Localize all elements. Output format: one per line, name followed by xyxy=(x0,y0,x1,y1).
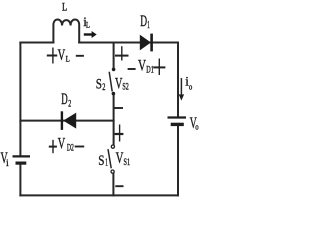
svg-text:S: S xyxy=(98,153,104,169)
svg-text:S2: S2 xyxy=(122,82,128,92)
svg-text:D: D xyxy=(140,13,147,30)
label + above S2 xyxy=(115,46,129,60)
svg-text:L: L xyxy=(86,20,90,30)
wire left side upper xyxy=(19,43,21,157)
svg-text:S1: S1 xyxy=(124,157,131,167)
diode D2 xyxy=(62,111,76,130)
svg-text:S: S xyxy=(96,77,102,93)
label Vi xyxy=(1,150,10,168)
wire top-left segment xyxy=(20,42,53,44)
wire bottom xyxy=(20,194,178,196)
svg-text:V: V xyxy=(58,136,66,153)
label -VD1+ xyxy=(128,58,166,76)
svg-text:V: V xyxy=(138,58,146,75)
svg-text:L: L xyxy=(66,54,70,64)
wire right side lower xyxy=(177,124,179,195)
label VS2 xyxy=(115,76,129,93)
wire top-right segment xyxy=(79,42,178,44)
battery Vo plates xyxy=(168,118,187,125)
svg-text:1: 1 xyxy=(105,158,108,169)
svg-text:1: 1 xyxy=(147,20,150,31)
label S1 xyxy=(98,153,108,169)
label +VL- xyxy=(47,47,84,64)
label - below S1 xyxy=(115,185,123,187)
label +VD2- xyxy=(49,136,84,154)
svg-text:o: o xyxy=(195,122,198,132)
switch S1 xyxy=(108,145,115,173)
svg-text:D: D xyxy=(61,91,67,108)
svg-text:D1: D1 xyxy=(146,66,154,76)
label + above S1 xyxy=(115,125,124,142)
wire middle horizontal (D2 branch) xyxy=(20,120,113,122)
arrow iL xyxy=(84,31,97,38)
svg-text:L: L xyxy=(62,0,67,14)
label - below S2 xyxy=(114,107,123,109)
svg-text:2: 2 xyxy=(68,100,71,110)
label D2 xyxy=(61,91,71,109)
label D1 xyxy=(140,13,150,31)
arrow io xyxy=(179,78,184,101)
label Vo xyxy=(190,115,199,132)
label io xyxy=(185,73,192,91)
label iL xyxy=(83,14,90,30)
diode D1 xyxy=(140,34,152,52)
svg-text:2: 2 xyxy=(102,82,105,92)
wire below S1 to bottom xyxy=(112,172,114,195)
label VS1 xyxy=(116,150,131,167)
switch S2 xyxy=(109,68,115,96)
wire right side upper xyxy=(177,43,179,118)
wire between S2 and S1 xyxy=(113,94,115,147)
wire left side lower xyxy=(19,163,21,195)
svg-text:V: V xyxy=(116,150,124,167)
wire middle vertical top stub xyxy=(113,43,115,70)
svg-text:D2: D2 xyxy=(67,144,74,154)
svg-text:o: o xyxy=(189,81,192,91)
svg-text:V: V xyxy=(58,47,66,64)
battery Vi plates xyxy=(13,156,31,163)
label S2 xyxy=(96,77,106,93)
inductor L xyxy=(53,19,79,42)
